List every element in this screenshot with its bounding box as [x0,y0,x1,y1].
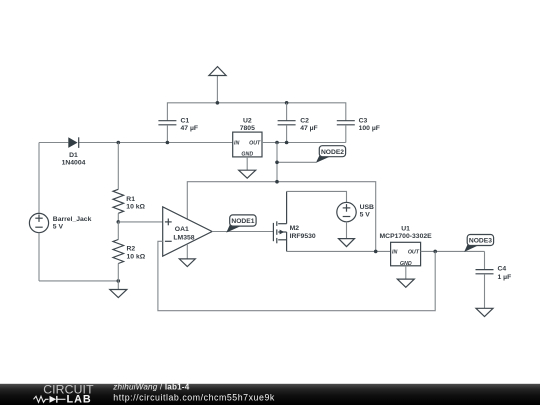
svg-text:10 kΩ: 10 kΩ [127,253,146,260]
svg-text:IN: IN [234,141,239,147]
svg-text:U1: U1 [401,225,410,232]
capacitor C1 [158,117,198,142]
svg-text:http://circuitlab.com/chcm55h7: http://circuitlab.com/chcm55h7xue9k [113,393,275,403]
svg-text:47 µF: 47 µF [300,125,318,132]
CircuitLab logo [34,383,95,405]
capacitor C3 [337,117,380,142]
svg-text:Barrel_Jack: Barrel_Jack [53,216,92,223]
wire main input rail [39,142,68,144]
node junction dot rail / R1 [117,141,121,145]
wire bottom left [39,280,118,282]
ground under C4 [476,308,493,316]
svg-text:5 V: 5 V [53,224,64,231]
transistor M2 IRF9530 (PMOS) [273,191,315,251]
svg-text:10 kΩ: 10 kΩ [126,204,145,211]
node junction dot top rail / C2 [285,101,289,105]
node junction dot top rail / arrow [216,101,220,105]
voltage source USB 5V [337,202,374,221]
svg-text:USB: USB [360,204,374,211]
wire 5V rail to op-amp V+ and PMOS source [187,182,375,252]
voltage regulator U1 MCP1700-3302E [380,225,433,266]
node junction dot out rail / NODE2 drop [275,141,279,145]
node junction dot U1 out / feedback [433,250,437,254]
node junction dot R2 bottom / ground [117,279,121,283]
svg-text:C3: C3 [359,117,368,124]
node junction dot 5V rail / NODE2 drop [275,180,279,184]
wire U1 output [421,250,485,252]
svg-text:U2: U2 [243,117,252,124]
wire op-amp output to gate [212,231,273,233]
svg-text:OUT: OUT [408,250,420,256]
svg-text:R1: R1 [126,196,135,203]
svg-text:1 µF: 1 µF [498,274,512,281]
capacitor C2 [278,103,318,143]
ground under U1 [397,266,414,288]
svg-text:M2: M2 [290,225,300,232]
node NODE1 flag [226,215,256,233]
diode D1 1N4004 [62,137,86,166]
wire feedback loop to op-amp inverting input [158,241,435,310]
node NODE2 flag [316,146,346,163]
svg-text:NODE1: NODE1 [231,218,254,225]
node NODE3 flag [464,235,493,252]
svg-text:5 V: 5 V [360,211,371,218]
wire NODE2 stub [277,161,316,163]
ground under USB source [339,222,355,247]
svg-text:LAB: LAB [67,393,92,405]
voltage regulator U2 7805 [233,117,262,157]
node junction dot rail / C1 [166,141,170,145]
svg-text:MCP1700-3302E: MCP1700-3302E [380,233,433,240]
svg-text:R2: R2 [127,246,136,253]
ground left [110,281,127,298]
node junction dot out rail / C2 [285,141,289,145]
svg-text:NODE3: NODE3 [469,238,492,245]
ground under op-amp [179,244,195,267]
svg-text:zhihuiWang / lab1-4: zhihuiWang / lab1-4 [112,383,189,392]
node junction dot 5V / U1 input [374,250,378,254]
svg-text:D1: D1 [69,152,78,159]
svg-text:IRF9530: IRF9530 [290,233,316,240]
svg-text:C2: C2 [300,117,309,124]
svg-text:7805: 7805 [240,125,255,132]
resistor R1 10k [113,143,146,222]
op-amp OA1 LM358 [163,207,212,256]
svg-text:C1: C1 [181,117,190,124]
svg-text:LM358: LM358 [173,234,194,241]
wire top rail [167,103,345,121]
svg-text:100 µF: 100 µF [359,125,380,132]
capacitor C4 [476,251,512,308]
svg-text:OA1: OA1 [175,226,189,233]
wire divider to op-amp + [118,221,162,223]
wire U2 output rail [262,142,346,144]
wire NODE2 vertical drop [276,143,278,182]
svg-text:C4: C4 [498,266,507,273]
ground under U2 [239,157,256,178]
svg-text:NODE2: NODE2 [321,149,344,156]
wire PMOS drain to USB load [287,191,347,202]
svg-text:IN: IN [392,250,397,256]
wire bottom 5V rail to U1 IN [287,250,391,252]
svg-text:1N4004: 1N4004 [62,159,86,166]
power supply arrow (VCC) [209,67,226,103]
resistor R2 10k [113,222,146,281]
voltage source Barrel_Jack [29,143,91,281]
svg-text:GND: GND [241,152,253,158]
svg-text:OUT: OUT [249,141,261,147]
node junction dot NODE2 stub [275,161,279,165]
node junction dot R1/R2 divider [117,220,121,224]
svg-text:47 µF: 47 µF [181,125,199,132]
